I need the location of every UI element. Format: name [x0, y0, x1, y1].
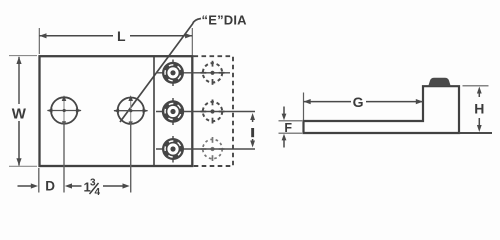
connector row 1 centerline — [156, 72, 230, 74]
svg-text:L: L — [117, 28, 126, 44]
hidden connector H2 dashed circle — [201, 100, 225, 124]
svg-text:“E”DIA: “E”DIA — [202, 12, 248, 27]
hole 2 centerline horizontal — [114, 110, 148, 112]
hole 1 circle — [51, 97, 77, 123]
svg-text:G: G — [353, 94, 364, 110]
hole 1 centerline vertical — [63, 99, 65, 193]
dimension H extension line bottom — [459, 132, 492, 134]
svg-text:F: F — [284, 121, 292, 135]
dimension L extension line left — [38, 28, 40, 54]
hidden connector H1 dashed circle — [201, 61, 225, 85]
connector J2 front — [162, 98, 184, 125]
hole 2 slotted circle — [118, 98, 144, 124]
dimension L line — [39, 35, 192, 37]
dimension 1-3/4 line — [65, 183, 130, 188]
hole 1 centerline horizontal — [48, 110, 82, 112]
dimension G line — [304, 101, 424, 103]
dimension I line — [250, 113, 255, 148]
dimension W extension line bottom — [9, 165, 37, 167]
front view plate outline — [40, 56, 193, 166]
svg-text:4: 4 — [95, 187, 101, 198]
connector row 2 centerline — [156, 111, 255, 113]
dimension F extension line top — [279, 120, 303, 122]
dimension H extension line top — [463, 85, 489, 87]
connector J1 front — [162, 60, 184, 87]
connector row 3 centerline — [156, 148, 255, 150]
label 1 3/4 — [84, 178, 101, 199]
dimension H line — [477, 87, 482, 133]
dimension F line — [282, 107, 287, 148]
connector bump side view — [429, 78, 450, 86]
dimension D extension line (plate left edge) — [38, 168, 40, 193]
dimension F extension line bottom — [279, 132, 303, 134]
dimension W extension line top — [9, 55, 37, 57]
svg-text:D: D — [45, 179, 55, 194]
hidden connector body dashed outline — [194, 56, 234, 166]
dimension W line — [18, 57, 20, 166]
dimension D line — [18, 183, 39, 188]
dimension L extension line right — [191, 28, 193, 55]
connector strip divider line — [153, 56, 155, 166]
connector J3 front — [162, 136, 184, 163]
side view body outline — [304, 86, 460, 133]
leader line to slotted hole — [120, 19, 201, 123]
svg-text:H: H — [474, 100, 484, 116]
svg-text:W: W — [12, 106, 27, 123]
label I — [251, 128, 254, 137]
hidden connector H3 dashed circle — [201, 137, 225, 161]
dimension G extension line — [303, 93, 305, 121]
hole 2 centerline vertical — [130, 99, 132, 193]
